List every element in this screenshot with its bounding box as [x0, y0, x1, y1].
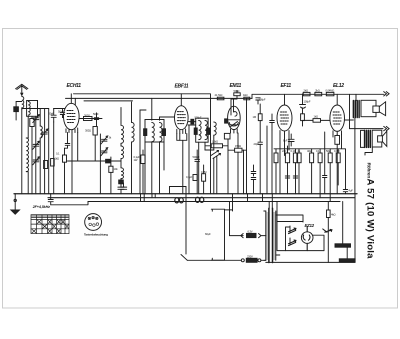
- wire horizontal grid: [54, 108, 65, 110]
- capacitor k2: [293, 176, 297, 178]
- svg-text:60μF: 60μF: [205, 232, 211, 236]
- capacitor 50pF input: [51, 109, 56, 123]
- rotated side caption: [366, 163, 371, 179]
- wire under box: [199, 142, 205, 194]
- capacitor 500pF: [191, 119, 194, 124]
- tube EM11: [228, 106, 241, 129]
- ground: [14, 194, 16, 211]
- svg-text:ECH11: ECH11: [67, 83, 82, 89]
- svg-text:0,1M: 0,1M: [291, 149, 297, 153]
- wire column: [35, 116, 37, 193]
- wire top pin: [284, 94, 286, 105]
- svg-text:0,3M: 0,3M: [201, 170, 207, 174]
- 220V plug row: [187, 259, 241, 261]
- wire links: [205, 146, 247, 150]
- resistor 1k on rail: [244, 97, 250, 100]
- svg-text:1kΩ: 1kΩ: [55, 157, 60, 161]
- svg-text:4kΩ: 4kΩ: [331, 213, 336, 217]
- wire tube to rail B: [74, 98, 76, 104]
- capacitor 0.1uF: [193, 175, 197, 181]
- resistor 240ohm: [285, 153, 289, 163]
- svg-text:2kΩ: 2kΩ: [315, 88, 320, 92]
- svg-text:EL12: EL12: [333, 83, 344, 89]
- svg-text:50kΩ: 50kΩ: [234, 89, 240, 93]
- wire column: [99, 134, 101, 194]
- capacitor 50pF det: [195, 150, 200, 194]
- coil IF2a: [199, 121, 201, 140]
- wire tube pins down: [72, 133, 78, 194]
- wire columns mid-right: [312, 132, 339, 202]
- wire link row: [274, 148, 341, 150]
- capacitor IF2 left: [194, 128, 197, 134]
- wire top link: [22, 101, 49, 109]
- resistor top row 0.04M: [326, 92, 334, 95]
- wire column pair: [244, 98, 247, 193]
- wire: [213, 135, 215, 150]
- coil column: [214, 122, 216, 135]
- wire ground bus B1: [14, 193, 357, 195]
- svg-text:20pF: 20pF: [254, 142, 260, 146]
- capacitor avc2: [251, 178, 256, 194]
- svg-text:1kΩ: 1kΩ: [243, 93, 248, 97]
- switch box over bus: [170, 187, 187, 194]
- capacitor fixed: [106, 159, 110, 163]
- svg-text:Tastenbeleuchtung: Tastenbeleuchtung: [84, 232, 108, 236]
- transformer T2 windings: [365, 130, 371, 147]
- svg-text:100pF: 100pF: [304, 100, 311, 104]
- capacitor on lead: [118, 187, 124, 194]
- svg-text:500pF: 500pF: [193, 155, 200, 159]
- svg-text:220V: 220V: [247, 254, 253, 258]
- trimmer C1: [33, 115, 40, 123]
- svg-text:EM11: EM11: [230, 83, 242, 89]
- svg-text:4μF: 4μF: [349, 189, 354, 193]
- wire avc line: [68, 160, 122, 162]
- wire rail C short: [84, 100, 133, 102]
- resistor below box: [30, 119, 34, 127]
- svg-text:50pF: 50pF: [93, 112, 99, 116]
- wire pair down: [214, 156, 217, 194]
- wire: [31, 116, 33, 193]
- speaker 2: [372, 130, 382, 147]
- svg-text:41,7kΩ: 41,7kΩ: [215, 93, 223, 97]
- svg-text:1,2kΩ: 1,2kΩ: [212, 140, 218, 144]
- capacitor 100pF: [300, 94, 306, 114]
- wire top rail A (anode supply): [74, 94, 385, 101]
- wire EZ12 loop: [248, 194, 325, 251]
- wire bus B2: [48, 197, 355, 199]
- wire left column: [210, 101, 212, 194]
- wire mid terminal: [350, 118, 384, 194]
- resistor extra: [274, 153, 278, 163]
- capacitor grid EF11: [270, 114, 275, 130]
- terminal chevrons top: [384, 92, 389, 96]
- coil antenna series: [22, 97, 24, 110]
- wire columns: [267, 126, 272, 194]
- wire pins down: [280, 134, 289, 194]
- lamp circle: [85, 214, 102, 231]
- wire T2 down: [365, 147, 372, 155]
- wire stubs bus: [141, 194, 156, 202]
- wire: [142, 150, 144, 194]
- wire column: [44, 109, 46, 194]
- wire tube top to rail A: [70, 94, 72, 104]
- coil IF1a: [152, 123, 155, 142]
- wire plate to transformer: [344, 94, 356, 128]
- mains switch: [181, 194, 187, 261]
- coil box L1: [27, 101, 38, 117]
- svg-text:EBF11: EBF11: [175, 83, 189, 89]
- wire plate out: [79, 118, 102, 120]
- svg-text:50pF: 50pF: [49, 112, 55, 116]
- svg-text:6,3V: 6,3V: [248, 229, 253, 233]
- power transformer: [266, 211, 276, 260]
- wire loop below tube: [177, 134, 187, 141]
- capacitor IF1 right: [162, 129, 165, 136]
- coil osc a2: [121, 146, 124, 159]
- speaker 1: [361, 100, 376, 116]
- svg-text:EF11: EF11: [281, 83, 292, 89]
- wire: [231, 91, 237, 107]
- svg-text:50pF: 50pF: [58, 110, 64, 114]
- capacitor k3: [323, 176, 327, 178]
- waveband table: [31, 215, 69, 234]
- wire column: [48, 109, 50, 194]
- capacitor 50pF grid: [54, 109, 65, 118]
- 6.3V connector: [230, 234, 244, 238]
- capacitor IF2 right: [207, 128, 210, 134]
- resistor 300ohm plate: [84, 117, 93, 121]
- wire psu drops: [230, 194, 233, 236]
- wire top rail B (screen supply): [66, 97, 253, 99]
- svg-text:0,04MΩ: 0,04MΩ: [326, 88, 335, 92]
- capacitor on bus left: [48, 194, 88, 205]
- wire: [203, 165, 205, 194]
- wire column: [139, 110, 141, 194]
- svg-text:2kΩ: 2kΩ: [304, 88, 309, 92]
- svg-text:0,3M: 0,3M: [334, 149, 340, 153]
- electrolytic 60uF bracket: [211, 209, 232, 260]
- capacitor 200pF on rail end: [256, 98, 260, 104]
- resistor 150ohm: [235, 148, 242, 152]
- wire right pin down: [188, 125, 196, 194]
- tube ECH11: [64, 103, 80, 129]
- wire: [64, 148, 66, 194]
- wire top links: [140, 98, 175, 120]
- antenna: [16, 84, 28, 95]
- small value labels: [49, 88, 354, 258]
- IF transformer 1 box: [145, 120, 164, 143]
- trimmer C3: [33, 157, 40, 165]
- wire column: [53, 122, 55, 194]
- resistor 0.2M: [297, 153, 301, 163]
- wire column: [110, 157, 112, 194]
- speaker 1 cone: [379, 102, 385, 116]
- coil mid: [40, 126, 42, 138]
- wire bus B3: [88, 201, 340, 203]
- jack pair 2: [196, 197, 200, 202]
- psu bottom line: [266, 261, 355, 263]
- wire down: [94, 135, 96, 161]
- transformer T1 windings: [353, 101, 359, 118]
- tube EL12: [330, 105, 345, 131]
- trimmer C5: [101, 136, 108, 144]
- wire: [327, 218, 329, 263]
- capacitor 4uF: [343, 150, 347, 194]
- coil L1b: [26, 138, 28, 172]
- resistor 1M box: [141, 155, 145, 164]
- wire: [288, 146, 300, 194]
- capacitor 50pF: [94, 113, 98, 126]
- trimmer C6: [101, 148, 108, 156]
- coil osc b: [132, 122, 135, 142]
- capacitor 8uF cathode: [288, 134, 294, 146]
- svg-text:150Ω: 150Ω: [235, 144, 241, 148]
- wire pins down: [180, 134, 183, 194]
- wire right column: [327, 202, 329, 211]
- capacitor k1: [285, 176, 289, 178]
- resistor 1k grid EL12: [313, 119, 321, 123]
- svg-text:200pF: 200pF: [259, 97, 266, 101]
- svg-text:2F+4,5kHz: 2F+4,5kHz: [32, 205, 50, 209]
- terminal chevrons mid: [384, 126, 389, 130]
- IF transformer 2 box: [196, 118, 208, 142]
- svg-text:A 57 (10 W) Viola: A 57 (10 W) Viola: [365, 179, 376, 260]
- svg-text:300Ω: 300Ω: [84, 113, 90, 117]
- svg-text:1W: 1W: [134, 158, 138, 162]
- resistor 41.7k on rail: [217, 97, 224, 100]
- switch arrows: [211, 151, 221, 159]
- jack pair 1: [175, 198, 179, 203]
- trimmer C2: [33, 141, 40, 149]
- capacitor IF1 left: [144, 129, 147, 136]
- svg-text:1kΩ: 1kΩ: [314, 115, 319, 119]
- resistor vertical: [109, 166, 113, 172]
- rectifier tube EZ12: [301, 232, 313, 244]
- resistor 1.2k: [211, 144, 222, 148]
- wire top pin: [336, 94, 338, 105]
- diode arrows: [323, 229, 332, 232]
- wire antenna down: [21, 109, 23, 193]
- svg-text:300Ω: 300Ω: [85, 129, 91, 133]
- resistor 0.1M coupling: [301, 114, 305, 121]
- svg-text:Röhren: Röhren: [366, 163, 371, 179]
- coil osc a3: [121, 168, 124, 179]
- resistor 1k: [44, 161, 48, 169]
- wire transformer top to bus: [269, 194, 272, 209]
- coil osc a1: [121, 125, 124, 143]
- wire to T2: [361, 130, 365, 147]
- svg-text:500pF: 500pF: [195, 115, 202, 119]
- electrolytic cap C1: [335, 244, 351, 247]
- resistor 4k psu: [327, 210, 331, 218]
- coil IF2b: [205, 121, 207, 140]
- svg-text:0,1μF: 0,1μF: [186, 175, 193, 179]
- capacitor at x123: [121, 183, 127, 189]
- capacitor avc1: [251, 165, 256, 176]
- resistor top row 2k: [303, 92, 310, 95]
- wire columns under box: [145, 142, 164, 194]
- coil IF1b: [160, 123, 162, 142]
- capacitor fixed osc: [119, 180, 124, 184]
- capacitor 20pF: [258, 142, 262, 194]
- tube EF11: [277, 105, 292, 131]
- svg-text:8μF: 8μF: [283, 139, 288, 143]
- resistor 50k: [293, 153, 297, 163]
- tube EBF11: [175, 106, 189, 130]
- label 0.1uF box: [63, 155, 67, 162]
- wire: [333, 135, 346, 194]
- resistor top row 2k b: [315, 92, 322, 95]
- resistor cathode EM11: [224, 133, 230, 139]
- resistor row boxes: [310, 153, 314, 163]
- capacitor blob to ground: [16, 102, 22, 107]
- trimmer C4: [41, 129, 48, 137]
- resistor small: [51, 159, 55, 167]
- wire column: [39, 109, 41, 127]
- cathode resistor EL12: [335, 136, 340, 145]
- svg-text:EZ12: EZ12: [305, 223, 315, 228]
- resistor 0.3M: [202, 174, 206, 182]
- wire: [120, 108, 122, 147]
- wire: [228, 133, 238, 194]
- resistor 1M grid: [258, 114, 262, 121]
- capacitor 50pF pin: [65, 133, 70, 149]
- speaker 2 cone: [382, 131, 386, 146]
- wire caps: [343, 194, 355, 259]
- heater winding arrows: [289, 228, 296, 234]
- resistor 50k above EM11: [234, 93, 240, 96]
- wire tube top to rail A: [180, 94, 182, 106]
- resistor vertical 300: [93, 127, 97, 136]
- svg-text:240: 240: [282, 149, 287, 153]
- wire column L1: [27, 116, 29, 138]
- electrolytic cap C2: [339, 259, 355, 262]
